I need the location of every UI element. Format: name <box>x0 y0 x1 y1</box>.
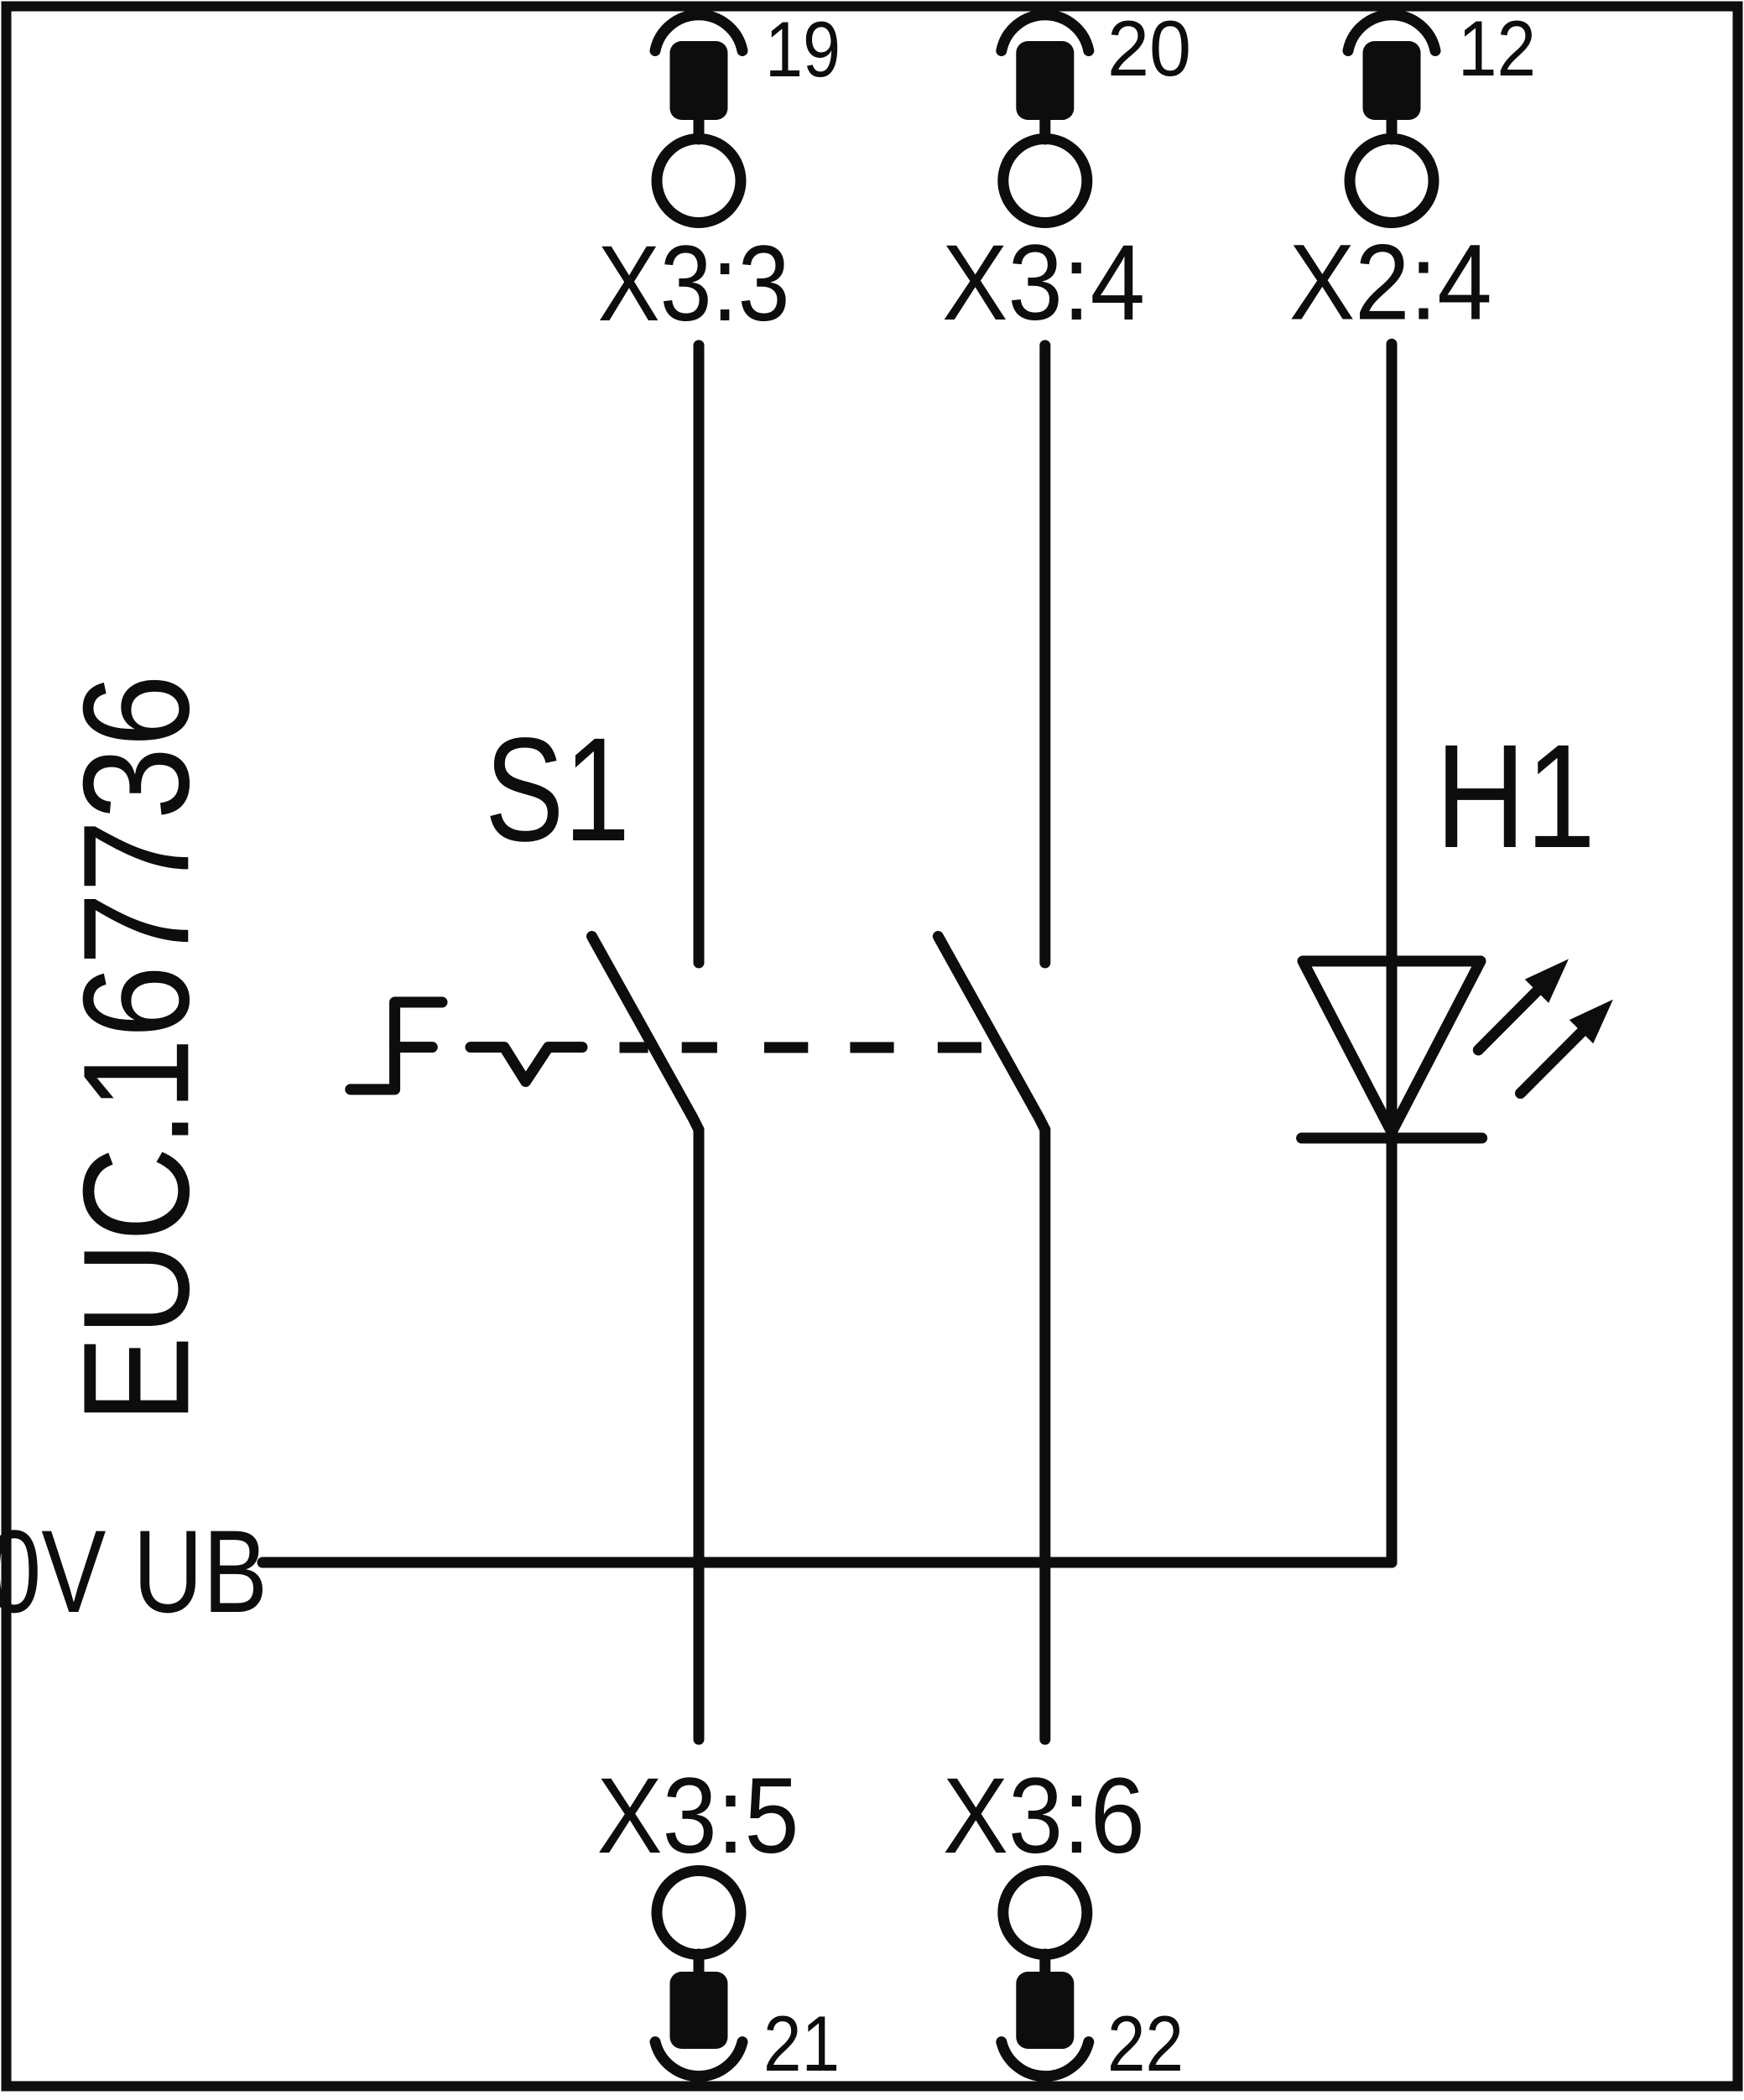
net 0V UB wire <box>263 1557 1392 1568</box>
connector terminal X3:4 <box>1002 15 1089 223</box>
wire X3:4 to S1 contact 2 <box>1039 346 1050 963</box>
svg-text:X3:6: X3:6 <box>943 1756 1145 1876</box>
switch S1 contact 1 blade <box>592 937 700 1131</box>
S1 mechanical linkage (dashed) <box>620 1042 982 1053</box>
svg-text:X3:3: X3:3 <box>598 224 790 344</box>
wire X3:3 to S1 contact 1 <box>694 346 705 963</box>
connector terminal X3:3 <box>655 15 742 223</box>
svg-text:X3:4: X3:4 <box>942 223 1145 343</box>
svg-text:S1: S1 <box>485 708 630 872</box>
wire S1 contact 1 to X3:5 <box>694 1130 705 1739</box>
connector terminal X3:5 <box>655 1871 742 2077</box>
svg-text:12: 12 <box>1458 4 1536 92</box>
svg-text:0V UB: 0V UB <box>0 1505 268 1637</box>
wire S1 contact 2 to X3:6 <box>1039 1130 1050 1739</box>
wire X2:4 to H1 and 0V UB <box>1387 344 1398 1562</box>
svg-text:X2:4: X2:4 <box>1289 223 1492 343</box>
svg-text:22: 22 <box>1107 1999 1184 2087</box>
svg-text:21: 21 <box>763 1999 840 2087</box>
S1 actuator symbol <box>351 1002 582 1089</box>
connector terminal X3:6 <box>1002 1871 1089 2077</box>
svg-text:EUC.167736: EUC.167736 <box>52 674 221 1423</box>
svg-text:20: 20 <box>1107 4 1191 92</box>
connector terminal X2:4 <box>1348 15 1435 223</box>
svg-text:19: 19 <box>765 5 841 93</box>
switch S1 contact 2 blade <box>938 937 1045 1131</box>
LED H1 <box>1302 959 1613 1139</box>
svg-text:H1: H1 <box>1435 715 1596 879</box>
svg-text:X3:5: X3:5 <box>597 1756 799 1876</box>
